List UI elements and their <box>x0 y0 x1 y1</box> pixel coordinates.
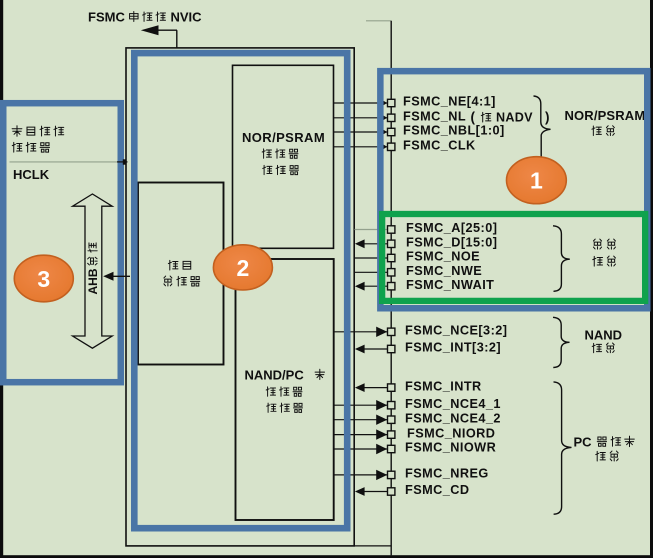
svg-text:FSMC_NOE: FSMC_NOE <box>406 250 480 264</box>
port square FSMC_NIORD <box>388 431 395 438</box>
page border right <box>650 0 653 558</box>
wire HCLK (gray) <box>10 161 118 163</box>
wire FSMC_NCE4_2 <box>334 419 387 421</box>
svg-text:NVIC: NVIC <box>171 9 203 24</box>
text controller <box>12 142 49 152</box>
highlight box 3 (left, HCLK/AHB) <box>3 103 121 382</box>
svg-text:FSMC: FSMC <box>88 9 125 24</box>
port square FSMC_NE <box>388 99 395 106</box>
page border left <box>0 0 3 558</box>
page border bottom <box>0 555 653 558</box>
text gongxiang <box>593 239 615 249</box>
port square FSMC_D <box>388 240 395 247</box>
text cfg-peizhi <box>168 260 190 270</box>
config register box <box>138 183 224 365</box>
text nand-kong <box>267 403 303 412</box>
wire NVIC interrupt <box>144 29 177 31</box>
port square FSMC_NWE <box>388 269 395 276</box>
port square FSMC_NWAIT <box>388 283 395 290</box>
svg-text:FSMC_INT[3:2]: FSMC_INT[3:2] <box>405 341 501 355</box>
arrowhead FSMC_NWAIT (left, into FSMC) <box>355 282 365 291</box>
text nor-cun <box>262 149 298 158</box>
arrowhead FSMC_INT (left, into FSMC) <box>355 345 365 354</box>
text huo <box>481 112 491 122</box>
svg-text:FSMC_NCE4_1: FSMC_NCE4_1 <box>405 397 501 411</box>
wire FSMC_NWAIT <box>364 285 387 287</box>
svg-text:PC: PC <box>574 434 593 449</box>
text shared-xinhao <box>593 256 616 266</box>
text nor-kong <box>263 165 299 174</box>
text nand-cun <box>266 387 302 396</box>
wire FSMC_CLK <box>334 146 387 148</box>
svg-text:FSMC_D[15:0]: FSMC_D[15:0] <box>406 236 497 250</box>
svg-text:2: 2 <box>237 255 250 281</box>
arrowhead FSMC_D (left, into FSMC) <box>355 239 365 248</box>
svg-text:FSMC_NWAIT: FSMC_NWAIT <box>406 278 494 292</box>
brace shared signals <box>553 226 570 291</box>
svg-text:HCLK: HCLK <box>13 167 50 182</box>
text nand-ka <box>315 369 324 379</box>
wire FSMC_NIOWR <box>334 448 387 450</box>
label AHB bus (rotated) <box>86 268 100 294</box>
svg-text:FSMC_NWE: FSMC_NWE <box>406 264 482 278</box>
arrowhead FSMC_NE (right, small) <box>382 100 388 107</box>
port square FSMC_NCE <box>388 328 395 335</box>
arrowhead FSMC_NCE (right) <box>376 327 387 337</box>
wire FSMC_NREG <box>334 474 387 476</box>
arrowhead FSMC_NIOWR (right) <box>376 444 387 454</box>
svg-text:FSMC_NE[4:1]: FSMC_NE[4:1] <box>403 95 496 109</box>
svg-text:FSMC_NCE[3:2]: FSMC_NCE[3:2] <box>405 324 507 338</box>
wire FSMC_A <box>355 229 388 231</box>
arrowhead FSMC_INTR (left, into FSMC) <box>355 383 365 392</box>
wire FSMC_NCE <box>334 331 387 333</box>
FSMC outer block box <box>126 48 354 546</box>
text nor-xinhao <box>592 126 614 136</box>
wire FSMC_D <box>364 243 387 245</box>
svg-text:): ) <box>545 109 550 124</box>
wire FSMC_NWE <box>355 271 388 273</box>
wire FSMC_NL <box>334 117 387 119</box>
wire FSMC_NBL <box>334 131 387 133</box>
svg-text:NAND: NAND <box>585 328 623 343</box>
highlight box 1 (NOR/PSRAM+shared) <box>380 71 647 308</box>
arrowhead AHB (left) <box>103 272 113 281</box>
brace PC card signals <box>554 382 572 514</box>
wire FSMC_NIORD <box>334 434 387 436</box>
callout circle 1 <box>507 157 567 204</box>
wire outer-box bottom to bus <box>354 545 391 547</box>
brace NOR/PSRAM signals + leader to circle 1 <box>534 96 551 159</box>
wire FSMC_INT <box>364 348 387 350</box>
svg-text:FSMC_NL: FSMC_NL <box>403 110 466 124</box>
port square FSMC_INTR <box>388 384 395 391</box>
arrowhead FSMC_NBL (right, small) <box>382 129 388 136</box>
svg-text:FSMC_NIORD: FSMC_NIORD <box>407 426 495 440</box>
arrowhead NVIC (left) <box>141 25 159 35</box>
svg-text:FSMC_NCE4_2: FSMC_NCE4_2 <box>405 411 501 425</box>
callout circle 3 <box>14 255 73 302</box>
svg-text:NAND/PC: NAND/PC <box>245 367 305 382</box>
brace NAND signals <box>553 317 570 367</box>
text pc-xinhao <box>596 451 618 461</box>
arrowhead FSMC_CLK (right, small) <box>382 144 388 151</box>
AHB bus double arrow <box>73 194 113 348</box>
port square FSMC_NIOWR <box>388 445 395 452</box>
port square FSMC_INT <box>388 345 395 352</box>
highlight box 2 (FSMC block) <box>134 53 347 528</box>
svg-text:FSMC_CD: FSMC_CD <box>405 483 469 497</box>
arrowhead FSMC_NREG (right) <box>376 470 387 480</box>
bus vertical line <box>390 21 392 556</box>
port square FSMC_A <box>388 226 395 233</box>
svg-text:(: ( <box>471 109 476 124</box>
text nand-xinhao <box>592 343 614 353</box>
svg-text:3: 3 <box>37 266 50 292</box>
port square FSMC_CD <box>388 488 395 495</box>
wire FSMC_NE <box>334 102 387 104</box>
port square FSMC_NCE4_2 <box>388 416 395 423</box>
svg-text:AHB: AHB <box>86 268 100 294</box>
port square FSMC_NOE <box>388 254 395 261</box>
callout circle 2 <box>213 245 272 290</box>
svg-text:FSMC_NBL[1:0]: FSMC_NBL[1:0] <box>403 124 505 138</box>
svg-text:NADV: NADV <box>496 110 533 124</box>
arrowhead FSMC_NCE4_2 (right) <box>376 415 387 425</box>
arrowhead FSMC_CD (left, into FSMC) <box>355 487 365 496</box>
wire FSMC_INTR <box>364 387 387 389</box>
NOR/PSRAM controller box <box>233 65 334 248</box>
svg-text:FSMC_NIOWR: FSMC_NIOWR <box>405 441 496 455</box>
text zhongduandao <box>130 11 166 21</box>
wire FSMC_CD <box>364 491 387 493</box>
arrowhead FSMC_NIORD (right) <box>376 429 387 439</box>
port square FSMC_NBL <box>388 128 395 135</box>
wire AHB to FSMC <box>112 275 130 277</box>
svg-text:NOR/PSRAM: NOR/PSRAM <box>565 108 646 123</box>
svg-text:FSMC_NREG: FSMC_NREG <box>405 467 489 481</box>
text zhinengka <box>597 436 634 446</box>
text cfg-jicunqi <box>164 276 200 286</box>
arrowhead FSMC_NL (right, small) <box>382 115 388 122</box>
text from-clock <box>12 126 64 137</box>
port square FSMC_CLK <box>388 143 395 150</box>
svg-text:FSMC_A[25:0]: FSMC_A[25:0] <box>406 221 497 235</box>
wire FSMC_NCE4_1 <box>334 404 387 406</box>
svg-text:NOR/PSRAM: NOR/PSRAM <box>242 130 325 145</box>
wire bus stub top <box>366 20 391 22</box>
NAND/PC-card controller box <box>236 259 334 520</box>
port square FSMC_NREG <box>388 471 395 478</box>
svg-text:FSMC_CLK: FSMC_CLK <box>403 139 476 153</box>
port square FSMC_NCE4_1 <box>388 402 395 409</box>
wire FSMC_NOE <box>355 257 388 259</box>
highlight green box (shared signals) <box>382 214 645 301</box>
wire HCLK into FSMC <box>117 161 128 163</box>
svg-text:1: 1 <box>530 168 543 194</box>
arrowhead FSMC_NCE4_1 (right) <box>376 400 387 410</box>
port square FSMC_NL <box>388 114 395 121</box>
svg-text:FSMC_INTR: FSMC_INTR <box>405 379 482 393</box>
